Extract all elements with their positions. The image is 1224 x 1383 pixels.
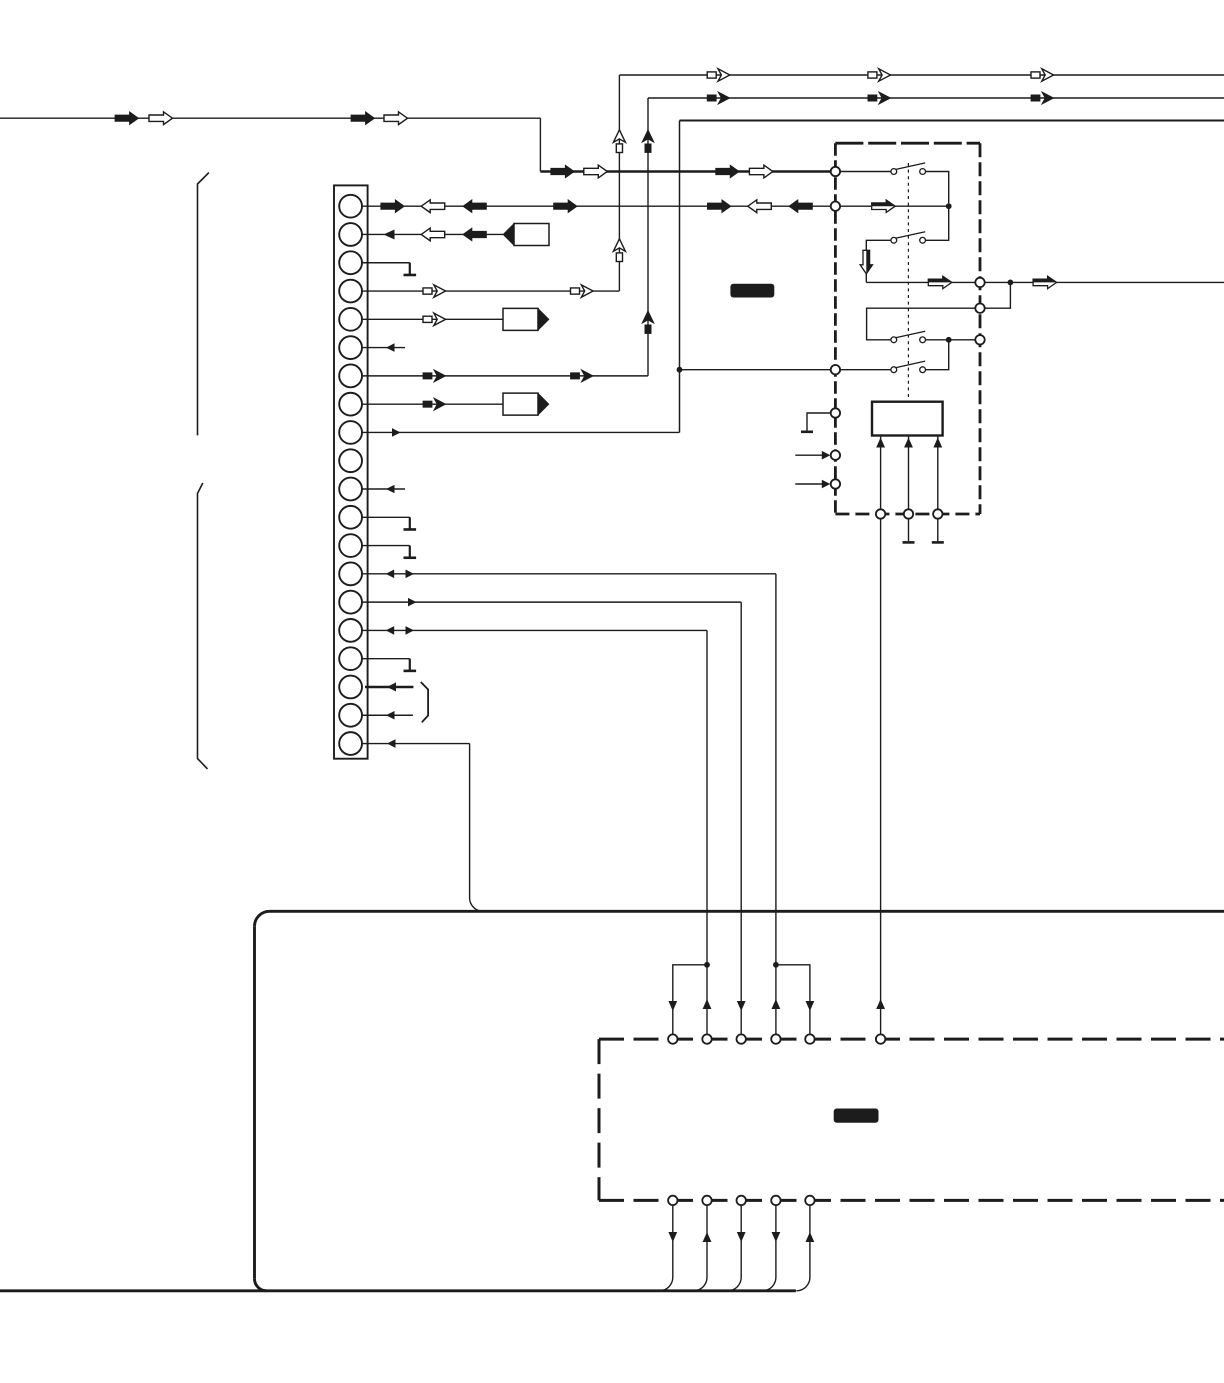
row11 arrowhead left <box>386 485 395 494</box>
wire S1 to junction <box>926 172 949 204</box>
row5 pentagon flag right <box>503 308 549 330</box>
ground bar SW-B3 <box>932 541 944 544</box>
wire pin B3 to bus <box>728 1205 742 1291</box>
wire row2 <box>362 233 503 235</box>
bottom unit pin T4 <box>771 1034 780 1043</box>
wire row5 <box>362 318 503 320</box>
switch S4 <box>891 361 926 373</box>
row12 ground <box>404 517 417 529</box>
wire S4 to left pin <box>840 369 891 371</box>
arrowhead pin455 <box>822 451 831 460</box>
connector pin 15 <box>339 591 362 614</box>
pin SW-L2 <box>831 202 840 211</box>
wire pin B4 to bus <box>762 1205 776 1291</box>
ground bar SW-B2 <box>903 541 915 544</box>
row2 arrow hollow left <box>421 228 445 241</box>
wire row16 <box>362 629 707 631</box>
arrow down half <box>860 250 872 273</box>
bottom unit pin B1 <box>668 1196 677 1205</box>
wire pin413 ground <box>807 413 831 431</box>
pin SW-L3 <box>831 365 840 374</box>
wire SW-R1 output <box>985 281 1224 283</box>
label box bottom unit <box>834 1109 879 1123</box>
row4 box-arrow 1 <box>423 285 446 297</box>
arrowhead B5 up <box>806 1232 815 1242</box>
wire row4 <box>362 290 619 292</box>
pin SW-L4 <box>831 408 840 417</box>
row8 box-arrow filled <box>423 398 446 410</box>
connector CN1 body <box>334 185 368 758</box>
bottom unit pin B2 <box>702 1196 711 1205</box>
wire row7 <box>362 375 648 377</box>
connector pin 9 <box>339 421 362 444</box>
row1 arrow filled left <box>463 200 487 213</box>
switch unit box left edge <box>834 143 837 514</box>
arrow down row15 pin <box>737 1001 746 1011</box>
wire split left <box>673 965 707 1035</box>
wire row11 <box>362 488 405 490</box>
arrowhead B4 down <box>772 1232 781 1242</box>
relay arrow 2 <box>904 438 913 448</box>
wire C third bus bold <box>680 120 1224 122</box>
wire row15 <box>362 601 741 603</box>
wire S3 branch to S4 <box>926 340 949 370</box>
connector pin 6 <box>339 336 362 359</box>
row13 ground <box>404 546 417 558</box>
connector pin 18 <box>339 676 362 699</box>
ground bar pin413 <box>801 430 813 433</box>
relay arrow 1 <box>876 438 885 448</box>
bottom unit pin B3 <box>737 1196 746 1205</box>
arrow on W1 hollow <box>149 112 173 125</box>
output half arrow <box>1033 276 1057 288</box>
pin SW-R2 <box>975 304 984 313</box>
row4 box-arrow 2 <box>571 285 594 297</box>
row17 ground <box>404 659 417 671</box>
wire row20 <box>362 743 470 745</box>
pin SW-R3 <box>975 335 984 344</box>
connector pin 10 <box>339 449 362 472</box>
bottom unit bottom edge <box>599 1199 1224 1202</box>
connector pin 19 <box>339 704 362 727</box>
junction V3-S4 row <box>677 367 683 373</box>
switch S2 <box>891 232 926 244</box>
switch unit box bottom edge <box>835 513 980 516</box>
bottom unit pin B5 <box>805 1196 814 1205</box>
row2 half arrow <box>872 200 896 212</box>
connector pin 3 <box>339 251 362 274</box>
arrowhead pin484 <box>822 480 831 489</box>
arrowhead B3 down <box>737 1232 746 1242</box>
row18 bracket <box>421 682 428 722</box>
wire row13 <box>362 545 410 547</box>
mech linkage dotted <box>907 163 909 402</box>
row1 arrow filled right 2 <box>554 200 578 213</box>
relay arrow 3 <box>933 438 942 448</box>
row1 arrow filled left 2 <box>789 200 813 213</box>
wire row14 drop <box>775 574 777 965</box>
pin SW-R1 <box>975 278 984 287</box>
wire row12 <box>362 516 410 518</box>
row20 arrowhead left <box>387 739 396 748</box>
switch S1 <box>891 163 926 175</box>
bottom unit pin T2 <box>702 1034 711 1043</box>
pin SW-B2 <box>904 509 913 518</box>
arrowhead B1 down <box>668 1232 677 1242</box>
wire pin B5 to bus <box>796 1205 810 1291</box>
pin SW-L1 <box>831 167 840 176</box>
bracket upper <box>198 173 209 436</box>
row16 arrowhead left <box>386 626 395 635</box>
symbol box-arrow A1 <box>707 69 730 81</box>
bottom unit pin T5 <box>805 1034 814 1043</box>
row2 pentagon flag left <box>503 223 549 245</box>
bracket lower <box>198 483 208 769</box>
relay coil box <box>872 402 943 436</box>
row8 pentagon flag right <box>503 393 549 415</box>
wire pin B2 to bus <box>694 1205 708 1291</box>
label box switch unit <box>730 284 774 298</box>
wire pin484 stub <box>795 483 826 485</box>
connector pin 17 <box>339 647 362 670</box>
relay wire 3 <box>937 436 939 510</box>
connector pin 5 <box>339 308 362 331</box>
relay wire 2 <box>908 436 910 510</box>
symbol box-arrow B3 <box>1031 92 1054 104</box>
row1 arrow filled right 3 <box>707 200 731 213</box>
junction row16 split <box>704 962 710 968</box>
row14 arrowhead left <box>386 570 395 579</box>
connector pin 7 <box>339 364 362 387</box>
symbol V1 up arrow 1 <box>613 130 625 153</box>
bottom unit pin T3 <box>737 1034 746 1043</box>
symbol box-arrow A2 <box>868 69 891 81</box>
junction row14 split <box>773 962 779 968</box>
wire row18 bold <box>365 686 413 689</box>
arrow on W1 filled <box>115 112 139 125</box>
wire row6 <box>362 347 405 349</box>
connector pin 11 <box>339 478 362 501</box>
wire row3 <box>362 262 410 264</box>
connector pin 16 <box>339 619 362 642</box>
arrow on W2 filled <box>551 165 575 178</box>
bus lower corner <box>255 1279 267 1291</box>
row7 box-arrow filled 2 <box>571 370 594 382</box>
arrow up from pin <box>703 999 712 1009</box>
wire row8 <box>362 403 503 405</box>
pin SW-L5 <box>831 451 840 460</box>
row1 arrow filled right <box>381 200 405 213</box>
wire row2 inside <box>840 205 949 207</box>
bottom unit pin T1 <box>668 1034 677 1043</box>
wire S4 external <box>680 369 831 371</box>
bus vertical <box>253 926 256 1279</box>
wire row17 <box>362 658 410 660</box>
arrow on W2 hollow 2 <box>749 165 773 178</box>
symbol box-arrow B2 <box>868 92 891 104</box>
row1 arrow hollow left 2 <box>748 200 772 213</box>
wire SW-B3 ground <box>937 519 939 542</box>
connector pin 20 <box>339 732 362 755</box>
wire row16 to pin <box>706 965 708 1035</box>
switch S3 <box>891 331 926 342</box>
row18 arrowhead left <box>387 682 396 691</box>
row3 ground <box>404 263 417 275</box>
wire A top bus <box>619 74 1224 76</box>
junction S3 branch <box>946 337 952 343</box>
symbol box-arrow B1 <box>707 92 730 104</box>
connector pin 13 <box>339 534 362 557</box>
wire pin B1 to bus <box>659 1205 673 1291</box>
wire row15 drop <box>740 602 742 1034</box>
wire row14 <box>362 573 776 575</box>
bus upper horizontal <box>255 911 1224 926</box>
wire row16 drop <box>706 630 708 964</box>
row5 box-arrow <box>423 313 446 325</box>
arrow down into pin5 <box>806 1001 815 1011</box>
wire V3 vertical <box>679 121 681 433</box>
wire V2 vertical <box>647 98 649 376</box>
wire pin455 stub <box>795 454 826 456</box>
arrow down into pin <box>668 1001 677 1011</box>
row16 arrowhead right <box>406 626 415 635</box>
pin SW-L6 <box>831 479 840 488</box>
wire W2 bold feed <box>540 170 831 173</box>
pin SW-B3 <box>933 509 942 518</box>
bottom unit pin T6 <box>876 1034 885 1043</box>
row2 arrow filled left <box>463 228 487 241</box>
wire W1 horizontal input <box>0 117 540 119</box>
row1 arrow hollow left <box>421 200 445 213</box>
bus lower horizontal <box>0 1289 796 1292</box>
junction R1-R2 <box>1008 280 1014 286</box>
wire row1 <box>362 205 831 207</box>
arrow up from pin4 <box>772 999 781 1009</box>
row2 arrowhead left <box>384 229 395 239</box>
wire junction to S2 <box>926 206 949 240</box>
wire S1 input <box>840 171 891 173</box>
arrow on W2 filled 2 <box>716 165 740 178</box>
symbol V2 up arrow 2 <box>642 311 654 334</box>
arrowhead B2 up <box>703 1232 712 1242</box>
row15 arrowhead right <box>408 598 417 607</box>
symbol box-arrow A3 <box>1031 69 1054 81</box>
connector pin 12 <box>339 506 362 529</box>
connector pin 2 <box>339 223 362 246</box>
connector pin 4 <box>339 280 362 303</box>
bottom unit top edge <box>599 1038 1224 1041</box>
row7 box-arrow filled 1 <box>423 370 446 382</box>
connector pin 8 <box>339 393 362 416</box>
wire row9 <box>362 431 680 433</box>
S2 output half arrow <box>928 276 952 288</box>
switch unit box right edge <box>979 143 982 514</box>
switch unit box top edge <box>835 142 980 145</box>
row6 arrowhead left <box>386 343 395 352</box>
bottom unit left edge <box>598 1039 601 1200</box>
arrow on W1 filled 2 <box>351 112 375 125</box>
connector pin 14 <box>339 562 362 585</box>
wire to S3 <box>867 337 891 340</box>
connector pin 1 <box>339 195 362 218</box>
wire S2 output <box>866 281 975 283</box>
row14 arrowhead right <box>406 570 415 579</box>
wire right row2 inside <box>867 308 985 337</box>
wire V1 vertical <box>618 75 620 291</box>
wire W1 corner drop <box>539 118 541 171</box>
arrow on W2 hollow <box>584 165 608 178</box>
wire relay to bottom connector <box>880 519 882 1035</box>
symbol V1 up arrow 2 <box>613 239 625 262</box>
pin SW-B1 <box>876 509 885 518</box>
wire B second bus <box>648 97 1224 99</box>
wire row14 to pin <box>775 965 777 1035</box>
wire SW-B2 ground <box>908 519 910 542</box>
row9 arrowhead right <box>392 428 401 437</box>
row19 arrowhead left <box>386 711 395 720</box>
wire R2 link <box>985 282 1011 308</box>
arrow on W1 hollow 2 <box>384 112 408 125</box>
junction S1-row2 <box>946 203 952 209</box>
wire row20 drop <box>470 744 484 912</box>
wire split right <box>776 965 810 1035</box>
arrow up from pin6 <box>876 999 885 1009</box>
wire row19 <box>362 714 413 716</box>
symbol V2 up arrow 1 <box>642 130 654 153</box>
bottom unit pin B4 <box>771 1196 780 1205</box>
wire S2 left leg <box>866 240 891 282</box>
wire S3 to pin <box>926 339 976 341</box>
relay wire 1 <box>880 436 882 510</box>
